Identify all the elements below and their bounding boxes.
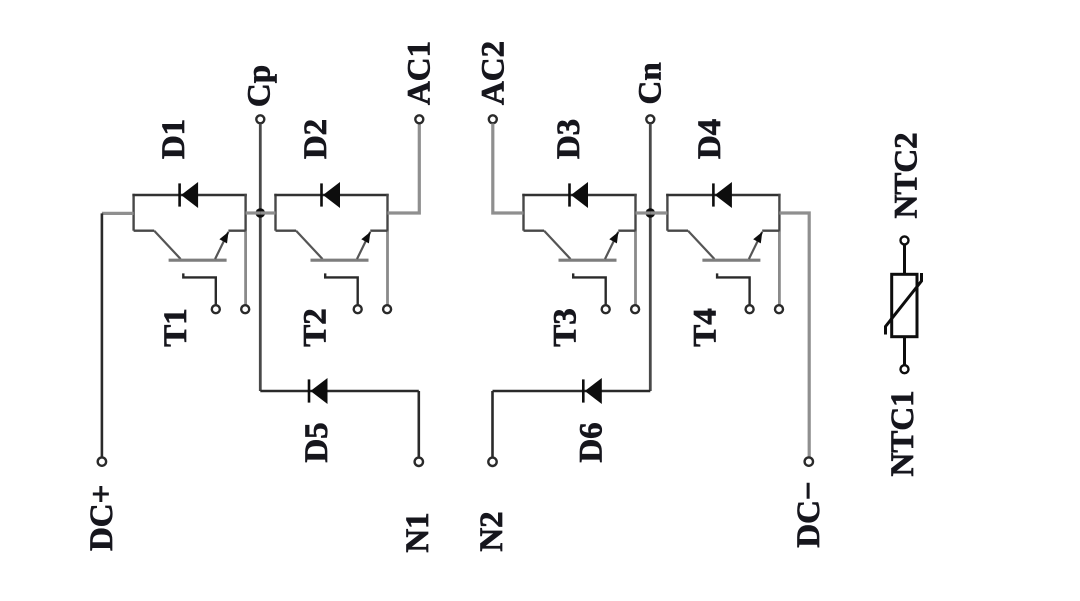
svg-text:N2: N2 <box>474 511 510 551</box>
gate terminal T1 <box>212 305 220 313</box>
gate terminal T3 <box>602 305 610 313</box>
thermistor NTC diagonal <box>886 273 922 335</box>
wire DC+ vertical <box>101 213 104 457</box>
wire Cn to T4 <box>650 211 667 214</box>
svg-text:NTC2: NTC2 <box>889 132 925 218</box>
diode D2 <box>320 183 323 206</box>
svg-text:T4: T4 <box>688 308 724 347</box>
wire Cp vertical <box>259 124 262 391</box>
aux emitter terminal T4 <box>775 305 783 313</box>
diode D1 <box>178 183 181 206</box>
svg-text:D6: D6 <box>574 422 610 462</box>
diode D3 <box>568 183 571 206</box>
svg-text:T2: T2 <box>297 308 333 347</box>
wire T4 to DC- <box>779 213 809 457</box>
gate wire T2 <box>325 273 358 304</box>
transistor T4 <box>666 194 668 231</box>
junction node Cp <box>255 208 265 218</box>
wire N1 vertical <box>417 391 420 458</box>
gate terminal T4 <box>746 305 754 313</box>
gate wire T3 <box>573 273 606 304</box>
transistor T1 <box>132 194 134 231</box>
wire N2 to Cn rail with D6 <box>493 390 651 393</box>
svg-text:NTC1: NTC1 <box>885 390 921 476</box>
wire T2 to AC1 <box>388 124 420 214</box>
svg-text:D4: D4 <box>692 119 728 159</box>
svg-text:Cp: Cp <box>241 65 277 107</box>
svg-text:D1: D1 <box>156 119 192 159</box>
svg-text:T1: T1 <box>158 308 194 347</box>
thermistor NTC body <box>892 274 917 336</box>
aux emitter terminal T1 <box>241 305 249 313</box>
svg-text:DC−: DC− <box>791 481 827 547</box>
terminal AC2 <box>489 115 497 123</box>
svg-text:D2: D2 <box>298 119 334 159</box>
gate wire T1 <box>183 273 216 304</box>
diode D4 <box>712 183 715 206</box>
terminal AC1 <box>415 115 423 123</box>
wire N2 vertical <box>491 391 494 458</box>
svg-text:AC2: AC2 <box>475 41 511 105</box>
wire DC+ stub <box>102 212 134 215</box>
svg-text:N1: N1 <box>400 512 436 552</box>
gate wire T4 <box>717 273 750 304</box>
wire Cn vertical <box>649 124 652 391</box>
aux emitter terminal T2 <box>383 305 391 313</box>
terminal N1 <box>415 458 423 466</box>
gate terminal T2 <box>354 305 362 313</box>
terminal NTC1 <box>901 365 909 373</box>
wire Cp down to D5 rail <box>260 390 419 393</box>
terminal Cn <box>646 115 654 123</box>
wire AC2 to T3 <box>493 124 524 214</box>
wire NTC bottom lead <box>903 337 906 365</box>
wire Cp to T2 <box>260 211 275 214</box>
diode D6 <box>582 379 585 402</box>
terminal N2 <box>488 458 496 466</box>
diode D5 <box>308 379 311 402</box>
transistor T2 <box>274 194 276 231</box>
svg-text:D3: D3 <box>551 119 587 159</box>
terminal DC- <box>805 457 813 465</box>
terminal Cp <box>256 115 264 123</box>
aux emitter terminal T3 <box>631 305 639 313</box>
svg-text:DC+: DC+ <box>84 485 120 551</box>
terminal DC+ <box>98 457 106 465</box>
transistor T3 <box>522 194 524 231</box>
svg-text:T3: T3 <box>548 308 584 347</box>
terminal NTC2 <box>901 236 909 244</box>
svg-text:AC1: AC1 <box>401 41 437 105</box>
junction node Cn <box>646 208 656 218</box>
wire T3 to Cn <box>636 211 651 214</box>
svg-text:D5: D5 <box>299 422 335 462</box>
wire T1 to Cp <box>246 211 261 214</box>
svg-text:Cn: Cn <box>633 62 669 104</box>
wire NTC top lead <box>903 245 906 276</box>
